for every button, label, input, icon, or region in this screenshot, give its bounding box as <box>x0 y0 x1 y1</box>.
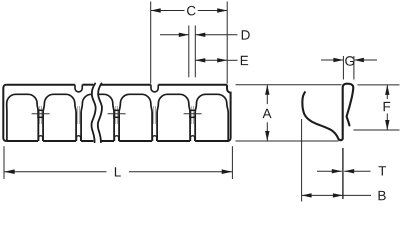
web 2 bottom arch <box>77 136 81 141</box>
web 3 inner shear lines <box>115 106 117 124</box>
dimension C line + arrows <box>151 10 185 12</box>
terminal window 4 arch outline <box>119 94 152 141</box>
strip top edge <box>6 84 75 86</box>
strip bottom edge segments <box>6 140 38 142</box>
crimp mark rectangle at web 3 <box>114 110 119 117</box>
dimension C extension line left <box>150 2 152 84</box>
terminal window 2 arch outline <box>43 94 76 141</box>
label C <box>187 6 196 16</box>
web 1 inner shear lines <box>39 106 41 124</box>
dimension G leaders + arrows <box>321 59 343 61</box>
label E <box>241 56 248 65</box>
web 1 bottom arch <box>39 136 43 141</box>
dimension A line + arrows <box>266 85 268 104</box>
dimension A extension line top <box>236 84 342 86</box>
dimension A extension line bottom <box>236 140 339 142</box>
dimension G extension lines <box>342 56 344 80</box>
web 5 inner shear lines <box>191 106 193 124</box>
side-view clip body: tongue, bottom U-bend, back leg <box>302 84 353 140</box>
dimension F bottom line <box>353 129 399 131</box>
label G <box>345 56 354 66</box>
dimension C extension line right <box>226 2 228 84</box>
label A <box>263 109 272 118</box>
dimension D extension lines <box>188 26 190 78</box>
dimension E line + arrows <box>195 59 227 61</box>
label L <box>115 167 121 176</box>
crimp mark rectangle at web 5 <box>190 110 195 117</box>
centerline cross at web 1 <box>32 113 50 115</box>
dimension L extension lines <box>3 146 5 179</box>
web 3 bottom arch <box>115 136 119 141</box>
terminal window 1 arch outline <box>7 94 39 141</box>
label F <box>384 102 391 111</box>
dimension F line + arrows <box>386 85 388 99</box>
dimension L line + arrows <box>4 171 107 173</box>
crimp mark rectangle at web 1 <box>38 110 43 117</box>
terminal window 3 (cut by break) arch outline <box>81 94 114 141</box>
dimension F top line <box>358 84 400 86</box>
web 2 inner shear lines <box>77 106 79 124</box>
label D <box>242 30 250 39</box>
terminal window 5 arch outline <box>157 94 190 141</box>
label B <box>379 191 386 200</box>
dimension D leaders + arrows <box>160 34 189 36</box>
web 4 inner shear lines <box>153 106 155 124</box>
dimension B extension line left <box>301 119 303 202</box>
break wavy line left <box>91 84 95 143</box>
top edge V-notch at web 2 <box>75 85 82 92</box>
top edge V-notch at web 4 <box>151 85 158 92</box>
break band white mask <box>91 84 103 143</box>
label T <box>378 166 386 175</box>
dimension T extension line <box>342 148 344 199</box>
terminal window 6 arch outline <box>195 94 228 141</box>
strip left end edge <box>3 85 6 141</box>
web 4 bottom arch <box>153 136 157 141</box>
centerline cross at web 5 <box>184 113 202 115</box>
break wavy line right <box>98 84 102 143</box>
web 5 bottom arch <box>191 136 195 141</box>
centerline cross at web 3 <box>108 113 126 115</box>
strip right end edge with half-notch <box>226 85 231 141</box>
dimension T leaders + arrows <box>317 170 342 172</box>
dimension B line + arrows <box>302 194 343 196</box>
